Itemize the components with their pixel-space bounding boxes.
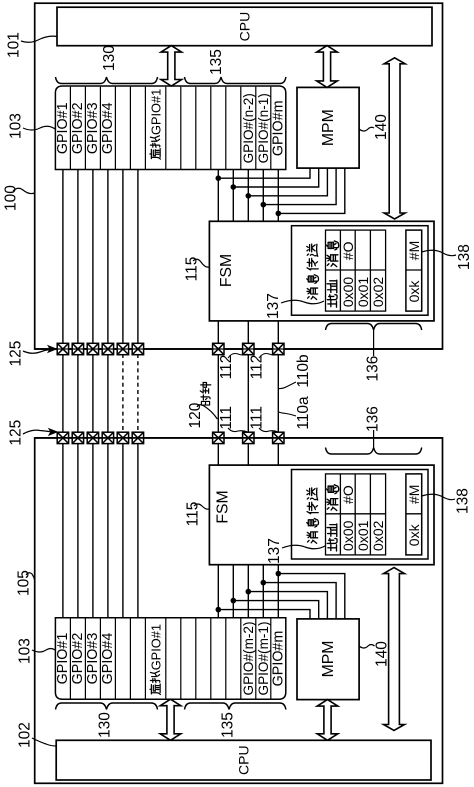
svg-text:GPIO#m: GPIO#m xyxy=(270,100,286,156)
label 140 (top) xyxy=(373,114,390,140)
leader for label 140 (bottom) xyxy=(359,645,374,649)
cell #M (top) xyxy=(406,241,422,260)
message header cell (bottom) xyxy=(327,485,339,511)
svg-text:GPIO#2: GPIO#2 xyxy=(70,102,86,154)
FSM pin 125 top row #2 xyxy=(243,343,254,354)
FSM box 115 (top) xyxy=(209,221,434,321)
virtual GPIO#1 label (bottom) xyxy=(149,624,164,694)
svg-text:GPIO#(n-2): GPIO#(n-2) xyxy=(241,93,256,163)
leader for label 101 xyxy=(21,36,57,42)
MPM label (bottom) xyxy=(320,641,337,678)
svg-text:CPU: CPU xyxy=(236,745,252,775)
address header cell (top) xyxy=(327,280,337,307)
CPU-MPM arrow (top) xyxy=(317,46,338,88)
svg-text:110a: 110a xyxy=(295,396,312,430)
leader for label 103 (top) xyxy=(23,126,55,130)
label 103 (bottom) xyxy=(17,638,34,664)
message table grid (top) xyxy=(326,230,386,311)
GPIO#m label (bottom) xyxy=(270,631,286,687)
brace 135 (top) xyxy=(185,77,286,84)
GPIO pin 125 bottom row #3 xyxy=(87,432,98,443)
CPU label (bottom) xyxy=(236,745,252,775)
svg-text:115: 115 xyxy=(184,257,201,282)
svg-text:GPIO#(m-1): GPIO#(m-1) xyxy=(256,621,271,695)
label 100 xyxy=(3,185,20,211)
cell 0x01 (top) xyxy=(355,277,371,308)
svg-text:0x01: 0x01 xyxy=(355,520,371,551)
GPIO#3 label (bottom) xyxy=(85,633,101,685)
CPU-virtualGPIO arrow (top) xyxy=(161,46,182,86)
leader 110b xyxy=(279,382,296,389)
GPIO to pin-row wires (top) xyxy=(63,170,138,345)
svg-text:GPIO#3: GPIO#3 xyxy=(85,102,101,154)
brace 130 (top) xyxy=(56,77,158,84)
leader 110a xyxy=(279,412,296,416)
svg-text:#M: #M xyxy=(406,241,422,260)
address header cell (bottom) xyxy=(327,524,337,551)
svg-text:125: 125 xyxy=(8,341,25,367)
cell 0xk (bottom) xyxy=(406,523,422,546)
GPIO pin 125 bottom row #5 xyxy=(117,432,128,443)
svg-text:101: 101 xyxy=(6,32,23,58)
FSM pin 125 top row #3 xyxy=(273,343,284,354)
svg-text:0x00: 0x00 xyxy=(340,277,356,308)
svg-text:136: 136 xyxy=(365,356,382,382)
svg-text:GPIO#m: GPIO#m xyxy=(270,631,286,687)
leader for label 103 (bottom) xyxy=(32,649,55,653)
leader 111 #1 xyxy=(228,428,248,432)
pin-row to FSM wires (bottom) xyxy=(218,443,278,465)
svg-text:111: 111 xyxy=(249,406,266,430)
GPIO#1 label (bottom) xyxy=(55,633,71,685)
virtual GPIO#1 label (top) xyxy=(149,89,164,159)
message table container 136 (bottom) xyxy=(292,470,429,560)
message table grid (bottom) xyxy=(326,474,386,555)
MPM box (bottom) xyxy=(297,619,359,700)
svg-text:0xk: 0xk xyxy=(406,280,422,303)
GPIO pin 125 bottom row #2 xyxy=(72,432,83,443)
cell 0x02 (top) xyxy=(370,277,386,308)
GPIO#m label (top) xyxy=(270,100,286,156)
CPU box 101 xyxy=(57,7,432,46)
FSM pin 125 top row #1 xyxy=(213,343,224,354)
leader for label 115 (bottom) xyxy=(194,504,209,509)
label 111 #1 xyxy=(218,406,235,430)
svg-text:135: 135 xyxy=(208,49,225,75)
svg-text:138: 138 xyxy=(456,244,473,270)
GPIO pin 125 top row #4 xyxy=(102,343,113,354)
brace 135 (bottom) xyxy=(185,703,286,710)
svg-text:GPIO#(n-1): GPIO#(n-1) xyxy=(256,93,271,163)
leader 111 #2 xyxy=(259,428,278,432)
pin row line (top) xyxy=(35,348,443,350)
leader arrow for 125 (bottom) xyxy=(23,428,58,436)
svg-text:#M: #M xyxy=(406,485,422,504)
leader for label 115 (top) xyxy=(193,259,209,267)
FSM-GPIO-MPM wires (bottom) xyxy=(218,565,344,619)
leader for label 137 (top) xyxy=(281,300,324,304)
junction dots (bottom) xyxy=(216,571,282,613)
FSM pin 125 bottom row #2 xyxy=(243,432,254,443)
brace 130 (bottom) xyxy=(56,703,158,710)
leader arrow for 125 (top) xyxy=(23,345,58,353)
cell #O (top) xyxy=(340,241,356,260)
leader for label 102 xyxy=(32,738,56,746)
message wire 110a/110b #1 xyxy=(247,354,249,433)
svg-text:140: 140 xyxy=(373,114,390,140)
leader for label 100 xyxy=(13,188,35,193)
svg-text:GPIO#4: GPIO#4 xyxy=(100,633,116,685)
svg-text:GPIO#3: GPIO#3 xyxy=(85,633,101,685)
svg-text:FSM: FSM xyxy=(215,490,232,523)
svg-text:130: 130 xyxy=(101,45,118,71)
leader for label 136 (top) xyxy=(373,330,375,356)
GPIO#4 label (top) xyxy=(100,102,116,154)
label 137 (top) xyxy=(265,293,282,319)
GPIO cell dividers (bottom) xyxy=(70,618,270,699)
svg-text:136: 136 xyxy=(365,406,382,432)
svg-text:130: 130 xyxy=(97,712,114,738)
svg-text:GPIO#1: GPIO#1 xyxy=(55,102,71,154)
SoC subsystem box 105 xyxy=(35,438,443,783)
GPIO#(m-1) label (bottom) xyxy=(256,621,271,695)
svg-text:112: 112 xyxy=(218,355,235,380)
svg-text:FSM: FSM xyxy=(218,254,235,287)
label 112 #1 xyxy=(218,355,235,380)
MPM label (top) xyxy=(320,109,337,146)
leader for label 138 (bottom) xyxy=(422,494,455,499)
label 138 (bottom) xyxy=(455,488,472,514)
0xk/#M box (top) xyxy=(406,230,422,311)
svg-text:103: 103 xyxy=(17,638,34,664)
label 137 (bottom) xyxy=(266,538,283,564)
leader for label 140 (top) xyxy=(359,127,374,131)
leader for label 105 xyxy=(26,573,35,580)
svg-text:105: 105 xyxy=(16,570,33,596)
cell #M (bottom) xyxy=(406,485,422,504)
label 125 (bottom) xyxy=(8,420,25,446)
message table container 136 (top) xyxy=(292,226,429,316)
GPIO#(n-2) label (top) xyxy=(241,93,256,163)
svg-text:MPM: MPM xyxy=(320,641,337,678)
svg-text:MPM: MPM xyxy=(320,109,337,146)
interconnect wires left (dashed) xyxy=(123,354,138,433)
GPIO#1 label (top) xyxy=(55,102,71,154)
GPIO cell dividers (top) xyxy=(70,87,270,170)
GPIO pin 125 bottom row #1 xyxy=(57,432,68,443)
svg-text:0xk: 0xk xyxy=(406,523,422,546)
brace 136 (top) xyxy=(326,324,422,331)
svg-text:GPIO#1: GPIO#1 xyxy=(149,624,164,670)
GPIO pin 125 top row #5 xyxy=(117,343,128,354)
label 136 (bottom) xyxy=(365,406,382,432)
label 135 (top) xyxy=(208,49,225,75)
GPIO#(n-1) label (top) xyxy=(256,93,271,163)
svg-text:115: 115 xyxy=(185,502,202,527)
label 120 xyxy=(187,402,204,428)
svg-text:0x00: 0x00 xyxy=(340,520,356,551)
svg-text:GPIO#1: GPIO#1 xyxy=(55,633,71,685)
FSM label (top) xyxy=(218,254,235,287)
svg-text:103: 103 xyxy=(8,113,25,139)
svg-text:0x02: 0x02 xyxy=(370,277,386,308)
svg-text:#O: #O xyxy=(340,485,356,504)
pin-row to GPIO wires (bottom) xyxy=(63,443,138,618)
leader 112 #2 xyxy=(259,354,278,359)
GPIO pin 125 bottom row #6 xyxy=(132,432,143,443)
svg-text:125: 125 xyxy=(8,420,25,446)
svg-text:CPU: CPU xyxy=(237,12,253,42)
pin row line (bottom) xyxy=(35,437,443,439)
FSM box 115 (bottom) xyxy=(209,465,434,565)
svg-text:GPIO#(m-2): GPIO#(m-2) xyxy=(241,621,256,695)
GPIO pin 125 top row #3 xyxy=(87,343,98,354)
svg-text:112: 112 xyxy=(249,355,266,380)
FSM pin 125 bottom row #3 xyxy=(273,432,284,443)
FSM to pin-row wires (top) xyxy=(218,321,278,344)
leader for label 120 xyxy=(197,405,217,419)
label 102 xyxy=(17,722,34,748)
cell 0xk (top) xyxy=(406,280,422,303)
leader for label 136 (bottom) xyxy=(373,430,375,448)
GPIO#3 label (top) xyxy=(85,102,101,154)
FSM pin 125 bottom row #1 xyxy=(213,432,224,443)
FSM-CPU bus arrow 140 (bottom) xyxy=(384,568,405,731)
MPM-CPU arrow (bottom) xyxy=(317,700,338,741)
svg-text:111: 111 xyxy=(218,406,235,430)
svg-text:135: 135 xyxy=(220,712,237,738)
leader for label 137 (bottom) xyxy=(282,545,325,549)
svg-text:137: 137 xyxy=(266,538,283,564)
svg-text:120: 120 xyxy=(187,402,204,428)
label 105 xyxy=(16,570,33,596)
cell #O (bottom) xyxy=(340,485,356,504)
interconnect wires left (solid) xyxy=(63,354,108,433)
svg-text:137: 137 xyxy=(265,293,282,319)
CPU label (top) xyxy=(237,12,253,42)
message header cell (top) xyxy=(327,241,339,267)
label 138 (top) xyxy=(456,244,473,270)
label 130 (top) xyxy=(101,45,118,71)
message-passing title (top) xyxy=(307,244,319,299)
GPIO#4 label (bottom) xyxy=(100,633,116,685)
label 125 (top) xyxy=(8,341,25,367)
label 115 (bottom) xyxy=(185,502,202,527)
leader for label 138 (top) xyxy=(422,250,456,255)
MPM box (top) xyxy=(297,87,359,168)
svg-text:0x01: 0x01 xyxy=(355,277,371,308)
GPIO#2 label (bottom) xyxy=(70,633,86,685)
svg-text:102: 102 xyxy=(17,722,34,748)
svg-text:GPIO#4: GPIO#4 xyxy=(100,102,116,154)
label 110a xyxy=(295,396,312,430)
0xk/#M box (bottom) xyxy=(406,474,422,555)
label 130 (bottom) xyxy=(97,712,114,738)
GPIO#2 label (top) xyxy=(70,102,86,154)
label 101 xyxy=(6,32,23,58)
GPIO pin 125 bottom row #4 xyxy=(102,432,113,443)
GPIO pin 125 top row #2 xyxy=(72,343,83,354)
GPIO#(m-2) label (bottom) xyxy=(241,621,256,695)
label 136 (top) xyxy=(365,356,382,382)
cell 0x00 (top) xyxy=(340,277,356,308)
svg-text:0x02: 0x02 xyxy=(370,520,386,551)
label 140 (bottom) xyxy=(374,641,391,667)
label 115 (top) xyxy=(184,257,201,282)
message wire 110a/110b #2 xyxy=(277,354,279,433)
CPU box 102 xyxy=(56,740,431,780)
svg-text:GPIO#2: GPIO#2 xyxy=(70,633,86,685)
GPIO pin 125 top row #1 xyxy=(57,343,68,354)
clock label (Chinese) xyxy=(200,382,211,405)
svg-text:#O: #O xyxy=(340,241,356,260)
junction dots (top) xyxy=(216,175,282,216)
label 135 (bottom) xyxy=(220,712,237,738)
label 112 #2 xyxy=(249,355,266,380)
svg-text:110b: 110b xyxy=(295,354,312,387)
leader 112 #1 xyxy=(228,354,248,359)
GPIO pin 125 top row #6 xyxy=(132,343,143,354)
GPIO bank box 103 (bottom) xyxy=(55,618,285,699)
CPU-FSM bus arrow 140 (top) xyxy=(384,58,405,219)
svg-text:138: 138 xyxy=(455,488,472,514)
svg-text:GPIO#1: GPIO#1 xyxy=(149,89,164,135)
cell 0x00 (bottom) xyxy=(340,520,356,551)
GPIO-FSM-MPM wires (top) xyxy=(218,168,344,221)
SoC subsystem box 100 xyxy=(35,3,443,349)
GPIO bank box 103 (top) xyxy=(55,86,285,170)
cell 0x01 (bottom) xyxy=(355,520,371,551)
clock wire 120 xyxy=(217,354,219,433)
FSM label (bottom) xyxy=(215,490,232,523)
brace 136 (bottom) xyxy=(326,448,422,455)
label 110b xyxy=(295,354,312,387)
label 111 #2 xyxy=(249,406,266,430)
label 103 (top) xyxy=(8,113,25,139)
message-passing title (bottom) xyxy=(307,488,319,543)
cell 0x02 (bottom) xyxy=(370,520,386,551)
virtualGPIO-CPU arrow (bottom) xyxy=(160,699,181,740)
